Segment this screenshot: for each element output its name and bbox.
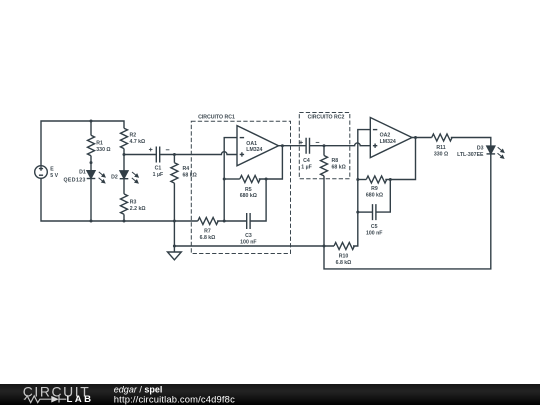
svg-text:4.7 kΩ: 4.7 kΩ: [130, 139, 146, 145]
svg-text:100 nF: 100 nF: [366, 231, 382, 237]
svg-text:LM324: LM324: [246, 147, 262, 153]
svg-text:D1: D1: [79, 170, 86, 176]
svg-text:E: E: [50, 167, 54, 173]
svg-text:R8: R8: [332, 158, 339, 164]
svg-text:C4: C4: [303, 158, 310, 164]
svg-text:68 kΩ: 68 kΩ: [332, 164, 346, 170]
svg-text:C1: C1: [155, 165, 162, 171]
svg-text:OA2: OA2: [380, 133, 391, 139]
svg-text:6.8 kΩ: 6.8 kΩ: [200, 235, 216, 241]
svg-text:R9: R9: [371, 186, 378, 192]
svg-text:680 kΩ: 680 kΩ: [240, 193, 257, 199]
svg-text:C5: C5: [371, 224, 378, 230]
svg-text:LAB: LAB: [67, 394, 94, 405]
svg-text:6.8 kΩ: 6.8 kΩ: [336, 260, 352, 266]
svg-text:R11: R11: [436, 145, 445, 151]
svg-text:R1: R1: [96, 141, 103, 147]
svg-text:1 µF: 1 µF: [301, 164, 311, 170]
svg-text:5 V: 5 V: [50, 173, 58, 179]
svg-text:D3: D3: [477, 146, 484, 152]
svg-text:R3: R3: [130, 200, 137, 206]
svg-text:R2: R2: [130, 132, 137, 138]
svg-text:R7: R7: [204, 228, 211, 234]
svg-text:OA1: OA1: [246, 141, 257, 147]
svg-text:D2: D2: [111, 175, 118, 181]
svg-text:R5: R5: [245, 187, 252, 193]
svg-text:C3: C3: [245, 233, 252, 239]
svg-text:2.2 kΩ: 2.2 kΩ: [130, 206, 146, 212]
svg-text:68 kΩ: 68 kΩ: [183, 173, 197, 179]
svg-text:1 µF: 1 µF: [153, 172, 163, 178]
svg-text:680 kΩ: 680 kΩ: [366, 193, 383, 199]
svg-text:R10: R10: [339, 254, 349, 260]
svg-text:CIRCUITO RC1: CIRCUITO RC1: [198, 115, 235, 121]
svg-text:LTL-307EE: LTL-307EE: [457, 152, 484, 158]
svg-text:QED123: QED123: [64, 177, 86, 183]
svg-text:http://circuitlab.com/c4d9f8c: http://circuitlab.com/c4d9f8c: [114, 394, 235, 405]
svg-text:330 Ω: 330 Ω: [96, 147, 110, 153]
svg-text:LM324: LM324: [380, 139, 396, 145]
svg-text:330 Ω: 330 Ω: [434, 152, 448, 158]
svg-text:R4: R4: [183, 166, 190, 172]
svg-text:100 nF: 100 nF: [240, 240, 256, 246]
svg-text:CIRCUITO RC2: CIRCUITO RC2: [308, 114, 345, 120]
